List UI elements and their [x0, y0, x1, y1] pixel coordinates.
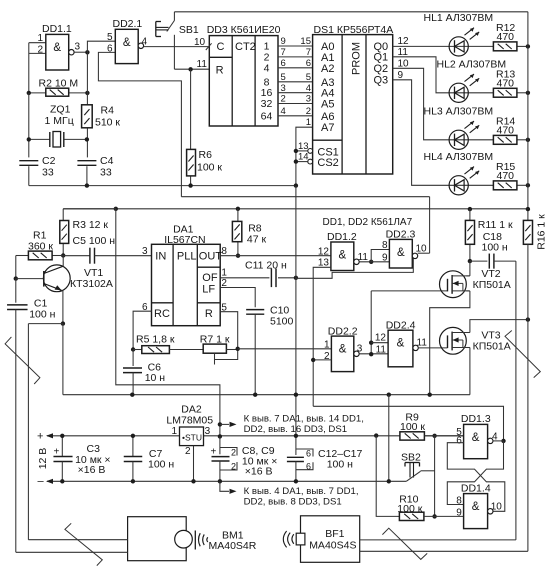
logic gate DD1.4 [456, 483, 502, 529]
node — rail to R3 [114, 207, 118, 211]
wire — R9 to DD1.3 pin 5 [425, 435, 464, 437]
wire — ground rail [47, 480, 406, 482]
node — R5/C6 node [131, 347, 135, 351]
svg-text:DD1, DD2 К561ЛА7: DD1, DD2 К561ЛА7 [323, 217, 413, 228]
node — VT2 source on mid rail [428, 393, 432, 397]
wire — DD1.2 out to DD2.3 inputs [358, 250, 390, 263]
wire — top +5V rail [174, 11, 528, 13]
svg-text:SB1: SB1 [179, 24, 199, 36]
wire — DD3 pin 2 to DS1 A5 pin 3 [278, 94, 313, 105]
svg-text:2: 2 [185, 446, 191, 457]
PROM DS1 KR556RT4A [313, 24, 394, 174]
wire — DD2.1 pin 6 feedback loop [98, 52, 181, 196]
wire — DA1 pin 6 RC to R5 node [133, 302, 151, 350]
svg-text:33: 33 [100, 167, 112, 179]
svg-text:3: 3 [306, 94, 311, 105]
svg-text:R11 1 к: R11 1 к [478, 219, 513, 231]
resistor R1 360 k [16, 229, 63, 260]
wire — BF1 upper lead to C18 link [360, 539, 516, 541]
svg-text:PROM: PROM [350, 42, 362, 75]
svg-text:R: R [205, 308, 213, 320]
logic gate DD1.2 [318, 231, 359, 271]
svg-text:A5: A5 [321, 99, 334, 111]
label — DS1 output Q3 [374, 75, 389, 87]
svg-text:12 В: 12 В [37, 448, 49, 470]
svg-text:Q3: Q3 [374, 75, 389, 87]
push-button SB1 [156, 12, 199, 69]
svg-text:IN: IN [155, 251, 166, 263]
node — DD2.4 pin 12 junction [369, 341, 373, 345]
label — DS1 CS2 [317, 157, 338, 169]
capacitor C4 33 [77, 155, 113, 186]
svg-text:470: 470 [497, 124, 515, 136]
crystal ZQ1 1 MHz [29, 104, 87, 148]
node — DD1.3 output junction [501, 439, 505, 443]
wire — to DD2.4 pin 12 [371, 333, 388, 344]
wire — DD2.2 output net up to VT2 gate [370, 291, 372, 354]
svg-text:100 к: 100 к [400, 421, 425, 433]
svg-text:OF: OF [202, 272, 218, 284]
node — DD2.4 pin 11 junction [369, 352, 373, 356]
wire — DD2.1 pin6 net to DD2.3 output [181, 196, 429, 198]
wire — DD3 pin 3 to DS1 A4 pin 4 [278, 83, 313, 94]
capacitor C11 20 n [245, 260, 296, 288]
wire — Q3 to HL4 [393, 70, 494, 185]
svg-text:5: 5 [107, 32, 113, 43]
resistor R5 1.8 k [133, 333, 203, 353]
label — DD3 output 16 [261, 87, 273, 99]
svg-text:×16 В: ×16 В [78, 464, 106, 476]
wire — Q0 to HL1 [393, 36, 494, 47]
node — R9 line on ground rail [387, 479, 391, 483]
svg-text:R3 12 к: R3 12 к [73, 219, 109, 231]
svg-text:2: 2 [37, 45, 43, 56]
pin — CS1 bubble and wire [294, 141, 313, 154]
label — DS1 CS1 [317, 146, 338, 158]
capacitor C2 33 [19, 155, 55, 186]
svg-text:2: 2 [306, 106, 311, 117]
svg-text:BF1: BF1 [325, 528, 344, 540]
label — DD3 output 32 [261, 98, 273, 110]
node — DA2 pin 2 on ground rail [191, 479, 195, 483]
svg-text:2: 2 [281, 94, 286, 105]
svg-text:R16 1 к: R16 1 к [535, 214, 547, 250]
svg-text:R4: R4 [101, 105, 115, 117]
svg-text:DD1.1: DD1.1 [42, 23, 72, 35]
label — HL4 АЛ307ВМ [424, 151, 494, 163]
wire — DD1.2 pin 13 to latch line [313, 267, 331, 406]
resistor R8 47 k [232, 209, 266, 256]
node — VT1 collector node [61, 253, 65, 257]
svg-text:1: 1 [324, 339, 330, 350]
capacitor C10 5100 [246, 305, 293, 395]
label — DS1 output Q1 [374, 52, 389, 64]
svg-text:&: & [397, 247, 405, 259]
label — К выв. 4 DA1, выв. 7 DD1, [244, 486, 359, 497]
label — DD2, выв. 16 DD3, DS1 [244, 424, 347, 435]
wire — jog up to DD2.1 pin 5 [87, 41, 115, 52]
svg-text:6: 6 [142, 302, 148, 313]
svg-text:14: 14 [298, 152, 309, 163]
svg-text:11: 11 [358, 252, 369, 263]
svg-text:4: 4 [142, 36, 148, 47]
svg-text:SB2: SB2 [401, 452, 421, 464]
node — R9 right junction [432, 434, 436, 438]
svg-text:6: 6 [306, 449, 311, 459]
wire — BF1 lower lead to right rail [360, 550, 528, 552]
wire — DD3 pin 5 to DS1 A3 pin 5 [278, 72, 313, 83]
svg-text:1: 1 [221, 268, 227, 279]
svg-text:R7 1 к: R7 1 к [200, 333, 230, 345]
capacitor C6 10 n [123, 350, 165, 395]
label — DS1 input A0 [321, 41, 334, 53]
wire — DA1 pin 2 LF to C10 [220, 278, 255, 307]
LED HL2 AL307BM [449, 74, 479, 102]
node — VT1 emitter node [61, 321, 65, 325]
wire — +5V rail over PLL section [63, 208, 528, 210]
svg-text:100 к: 100 к [397, 503, 422, 515]
svg-text:A2: A2 [321, 63, 334, 75]
svg-text:&: & [53, 42, 61, 54]
node — rail to R11 [468, 207, 472, 211]
wire — DD1.3 output [493, 440, 504, 442]
wire — DA1 pin 1 OF to C11 [220, 268, 269, 279]
trimmer resistor R7 1 k [200, 333, 238, 364]
node — R14 to right rail [526, 138, 530, 142]
svg-text:100 н: 100 н [29, 308, 55, 320]
node — oscillator output junction [85, 50, 89, 54]
svg-text:8: 8 [382, 240, 388, 251]
wire+arrow — К выв. 4 DA1 ground [220, 481, 237, 494]
svg-text:DD2.3: DD2.3 [386, 229, 416, 241]
svg-text:•STU: •STU [182, 432, 202, 442]
svg-text:3: 3 [205, 426, 211, 437]
svg-text:11: 11 [197, 59, 208, 70]
svg-text:5: 5 [306, 72, 311, 83]
label — DD3 output 4 [264, 62, 270, 74]
voltage regulator DA2 LM78M05 [166, 404, 213, 458]
node — mid rail to R9/R10 feed [387, 393, 391, 397]
svg-text:12: 12 [318, 247, 330, 258]
svg-text:6: 6 [306, 58, 311, 69]
label — 12 В [37, 448, 49, 470]
svg-text:DS1 КР556РТ4А: DS1 КР556РТ4А [314, 24, 394, 36]
node — crystal left [27, 137, 31, 141]
svg-text:&: & [339, 344, 347, 356]
resistor R12 470 [493, 22, 528, 51]
ultrasonic receiver BM1 MA40S4R [128, 517, 257, 561]
node — C12 top [294, 434, 298, 438]
svg-text:DD1.2: DD1.2 [327, 231, 357, 243]
node — 5V arrow tap [218, 422, 222, 426]
node — C7 top [131, 434, 135, 438]
wire — Q1 to HL2 [393, 47, 494, 93]
wire — C18 to BF1 link [515, 261, 517, 540]
capacitor C5 100 n [63, 235, 151, 264]
svg-text:–: – [38, 476, 45, 488]
wire — latch output line [313, 406, 503, 441]
wire — latch cross: DD1.4 out to DD1.3 pin 6 [447, 443, 505, 512]
svg-text:C11 20 н: C11 20 н [245, 260, 287, 272]
node — C7 bottom [131, 479, 135, 483]
svg-text:×16 В: ×16 В [245, 466, 273, 478]
resistor R9 100 k [400, 411, 426, 440]
svg-text:C: C [217, 41, 225, 53]
svg-text:12: 12 [398, 36, 410, 47]
node — DA1 OUT junction [236, 254, 240, 258]
svg-text:DD2.4: DD2.4 [386, 320, 416, 332]
svg-text:+: + [54, 447, 60, 458]
node — C11 right junction [294, 276, 298, 280]
wire — DD3 pin 7 to DS1 A1 pin 7 [278, 47, 313, 58]
wire — +12V rail [47, 435, 464, 437]
svg-text:6: 6 [456, 436, 462, 447]
wire — R9/R10 tie vertical [434, 436, 436, 517]
wire — left crystal branch [28, 93, 30, 157]
ultrasonic transmitter BF1 MA40S4S [283, 516, 359, 563]
svg-text:9: 9 [398, 70, 404, 81]
node — R2 left [27, 91, 31, 95]
label — HL3 АЛ307ВМ [424, 105, 494, 117]
svg-text:11: 11 [398, 47, 409, 58]
PLL IC DA1 IL567CN [152, 224, 223, 326]
svg-text:13: 13 [298, 141, 309, 152]
node — R12 to right rail [526, 44, 530, 48]
wire — R10 feed [376, 436, 399, 517]
svg-text:A7: A7 [321, 122, 334, 134]
node — crystal right [85, 137, 89, 141]
svg-text:3: 3 [357, 344, 363, 355]
svg-text:+: + [211, 447, 217, 458]
svg-text:КТ3102А: КТ3102А [70, 278, 113, 290]
resistor R10 100 k [397, 493, 424, 520]
resistor R13 470 [493, 68, 528, 97]
wire — latch cross: DD1.3 out to DD1.4 pin 8 [447, 441, 503, 505]
node — rail to R8 [236, 207, 240, 211]
svg-text:10 н: 10 н [145, 372, 166, 384]
svg-text:4: 4 [281, 106, 286, 117]
label — К выв. 7 DA1, выв. 14 DD1, [244, 413, 364, 424]
logic gate DD2.2 [324, 326, 359, 372]
svg-text:5: 5 [221, 303, 227, 314]
wire — R10 to DD1.4 pin 9 [424, 515, 464, 517]
wire — R7 node to DD2.2 pin 1 [238, 348, 332, 350]
label — DD3 output 64 [261, 110, 273, 122]
svg-text:КП501А: КП501А [473, 279, 511, 291]
node — C3 bottom [60, 479, 64, 483]
wire — DD1.1 input vertical with pins 1,2 [29, 33, 46, 93]
svg-text:MA40S4S: MA40S4S [309, 540, 356, 552]
capacitor C1 100 n [7, 279, 56, 553]
resistor R6 100 k [187, 69, 223, 185]
svg-text:&: & [472, 501, 480, 513]
LED HL4 AL307BM [449, 167, 479, 195]
svg-text:R: R [216, 65, 224, 77]
svg-text:7: 7 [306, 47, 311, 58]
svg-text:12: 12 [375, 333, 387, 344]
label — DS1 input A6 [321, 111, 334, 123]
svg-text:HL3 АЛ307ВМ: HL3 АЛ307ВМ [424, 105, 494, 117]
supply arrow — minus [38, 476, 54, 488]
wire — +5V output riser [116, 209, 220, 436]
label — HL2 АЛ307ВМ [437, 58, 507, 70]
node — R10 feed on +12 rail [374, 433, 378, 437]
node — VT3 drain to right rail [526, 317, 530, 321]
svg-text:6: 6 [107, 43, 113, 54]
node — C12 bottom [294, 479, 298, 483]
svg-text:8: 8 [221, 246, 227, 257]
svg-text:IL567CN: IL567CN [164, 234, 205, 246]
wire — DA1 pin 8 OUT to DD1.2 pin 12 [220, 246, 331, 257]
MOSFET VT2 KP501A [430, 261, 511, 395]
label — HL1 АЛ307ВМ [424, 12, 494, 24]
svg-text:3: 3 [281, 83, 286, 94]
wire — right +5V rail (upper) [527, 12, 529, 221]
svg-text:DD2.2: DD2.2 [328, 326, 358, 338]
svg-text:2: 2 [221, 278, 227, 289]
node — VT1 base node [14, 276, 18, 280]
node — DD1.2 output junction [369, 260, 373, 264]
node — R6 top junction [188, 67, 192, 71]
wire — DD2.1 output pin 4 to DD3 C input [142, 36, 210, 47]
shield symbol — BF1 cable lower [382, 528, 427, 559]
svg-text:HL4 АЛ307ВМ: HL4 АЛ307ВМ [424, 151, 494, 163]
node — C3 top [60, 434, 64, 438]
svg-text:11: 11 [376, 344, 387, 355]
svg-text:К выв. 4 DA1, выв. 7 DD1,: К выв. 4 DA1, выв. 7 DD1, [244, 486, 359, 497]
resistor R2 10 M (feedback) [29, 78, 88, 97]
wire — DD2.2 pin 2 from pin13 line [313, 359, 331, 361]
wire — R1 left down to base [15, 256, 17, 279]
node — R13 to right rail [526, 91, 530, 95]
wire — DA1 pin 5 R down to R7 [220, 303, 238, 349]
svg-text:10: 10 [194, 37, 206, 48]
shield symbol — BM1 cable upper [5, 337, 40, 384]
svg-text:MA40S4R: MA40S4R [209, 540, 257, 552]
wire — DD1.1 output pin 3 to node [74, 42, 87, 53]
wire — DS1 A7 pin 1 from ground link [296, 117, 313, 185]
wire — DD2.2 output to DD2.4 [357, 344, 388, 355]
svg-text:6: 6 [306, 461, 311, 471]
wire — VT2 gate line [371, 290, 447, 292]
svg-text:100 н: 100 н [327, 459, 353, 471]
shield symbol — BM1 cable lower [65, 523, 102, 565]
label — DD1, DD2 К561ЛА7 [323, 217, 413, 228]
svg-text:3: 3 [142, 246, 148, 257]
capacitor C18 100 n [470, 231, 516, 269]
node — C8 bottom [218, 479, 222, 483]
wire — BM1 lower lead [16, 551, 128, 553]
resistor R11 1 k [465, 209, 513, 261]
svg-text:100 к: 100 к [197, 162, 222, 174]
label — DS1 input A1 [321, 52, 334, 64]
logic gate DD2.4 [376, 320, 419, 367]
svg-text:C4: C4 [100, 155, 114, 167]
svg-text:Q2: Q2 [374, 63, 389, 75]
wire — DD2.3 output up to feedback line [416, 197, 430, 255]
node — C10 bottom on rail [253, 393, 257, 397]
svg-text:6: 6 [281, 58, 286, 69]
svg-text:100 н: 100 н [148, 459, 174, 471]
label — DS1 input A2 [321, 63, 334, 75]
resistor R3 12 k [60, 209, 116, 256]
resistor R16 1 k [523, 214, 547, 250]
svg-text:R2 10 М: R2 10 М [39, 78, 79, 90]
node — R15 to right rail [526, 183, 530, 187]
wire — oscillator ground rail [29, 185, 296, 187]
label — DD3 output 1 [264, 41, 270, 53]
capacitor C8 C9 10uF electrolytic [211, 436, 278, 481]
capacitor C12-C17 100 n [287, 448, 363, 481]
logic gate DD1.3 [456, 413, 498, 459]
wire — DD3 pin 6 to DS1 A2 pin 6 [278, 58, 313, 69]
svg-text:LM78M05: LM78M05 [166, 415, 213, 427]
svg-text:5: 5 [281, 72, 286, 83]
node — DA2 pin3 junction [218, 434, 222, 438]
supply arrow — plus 12 V [37, 430, 53, 442]
wire — R9/R10 feed with DD1.3 tap [388, 395, 390, 482]
node — R10 right junction [432, 514, 436, 518]
label — DD3 output 8 [264, 76, 270, 88]
label — DD2, выв. 8 DD3, DS1 [244, 496, 342, 507]
svg-text:CT2: CT2 [235, 41, 256, 53]
label — DS1 input A3 [321, 77, 334, 89]
svg-text:HL1 АЛ307ВМ: HL1 АЛ307ВМ [424, 12, 494, 24]
svg-text:4: 4 [306, 83, 311, 94]
wire — DD3 R input pin 11 [174, 37, 209, 70]
node — VT2 drain node [468, 259, 472, 263]
node — R7 wiper junction [236, 347, 240, 351]
svg-text:7: 7 [281, 47, 286, 58]
capacitor C3 10uF electrolytic [53, 436, 110, 482]
wire — emitter down to mid rail [62, 324, 64, 395]
node — R6 bottom [188, 183, 192, 187]
svg-text:DD3 К561ИЕ20: DD3 К561ИЕ20 [207, 24, 281, 36]
wire — middle rail [63, 394, 470, 396]
LED HL3 AL307BM [449, 121, 479, 149]
wire — DD3 pin 9 to DS1 A0 pin 15 [278, 36, 313, 47]
svg-text:+: + [37, 430, 43, 442]
wire — DD2.4 output to VT3 gate [417, 338, 448, 349]
label — DD3 output 2 [264, 51, 270, 63]
svg-text:3: 3 [75, 42, 81, 53]
svg-text:DD2.1: DD2.1 [113, 18, 143, 30]
svg-text:470: 470 [497, 170, 515, 182]
svg-text:4: 4 [264, 62, 270, 74]
shield symbol — BF1 cable upper [505, 331, 540, 378]
svg-text:470: 470 [497, 31, 515, 43]
svg-text:R6: R6 [199, 149, 213, 161]
svg-text:DD2, выв. 8 DD3, DS1: DD2, выв. 8 DD3, DS1 [244, 496, 342, 507]
svg-text:9: 9 [382, 253, 388, 264]
svg-text:10: 10 [491, 502, 503, 513]
svg-text:C2: C2 [42, 155, 56, 167]
svg-text:КП501А: КП501А [473, 340, 511, 352]
pin — CS2 bubble and wire [294, 152, 313, 164]
capacitor C7 100 n [124, 436, 175, 482]
svg-text:C5 100 н: C5 100 н [73, 235, 116, 247]
svg-text:ZQ1: ZQ1 [50, 104, 71, 116]
svg-text:PLL: PLL [177, 251, 197, 263]
svg-text:510 к: 510 к [95, 117, 120, 129]
svg-text:5100: 5100 [270, 316, 294, 328]
svg-text:2: 2 [231, 462, 236, 472]
svg-text:33: 33 [42, 167, 54, 179]
transistor VT1 KT3102A [16, 256, 113, 324]
svg-text:&: & [397, 338, 405, 350]
svg-text:64: 64 [261, 110, 273, 122]
svg-text:1 МГц: 1 МГц [45, 115, 74, 127]
